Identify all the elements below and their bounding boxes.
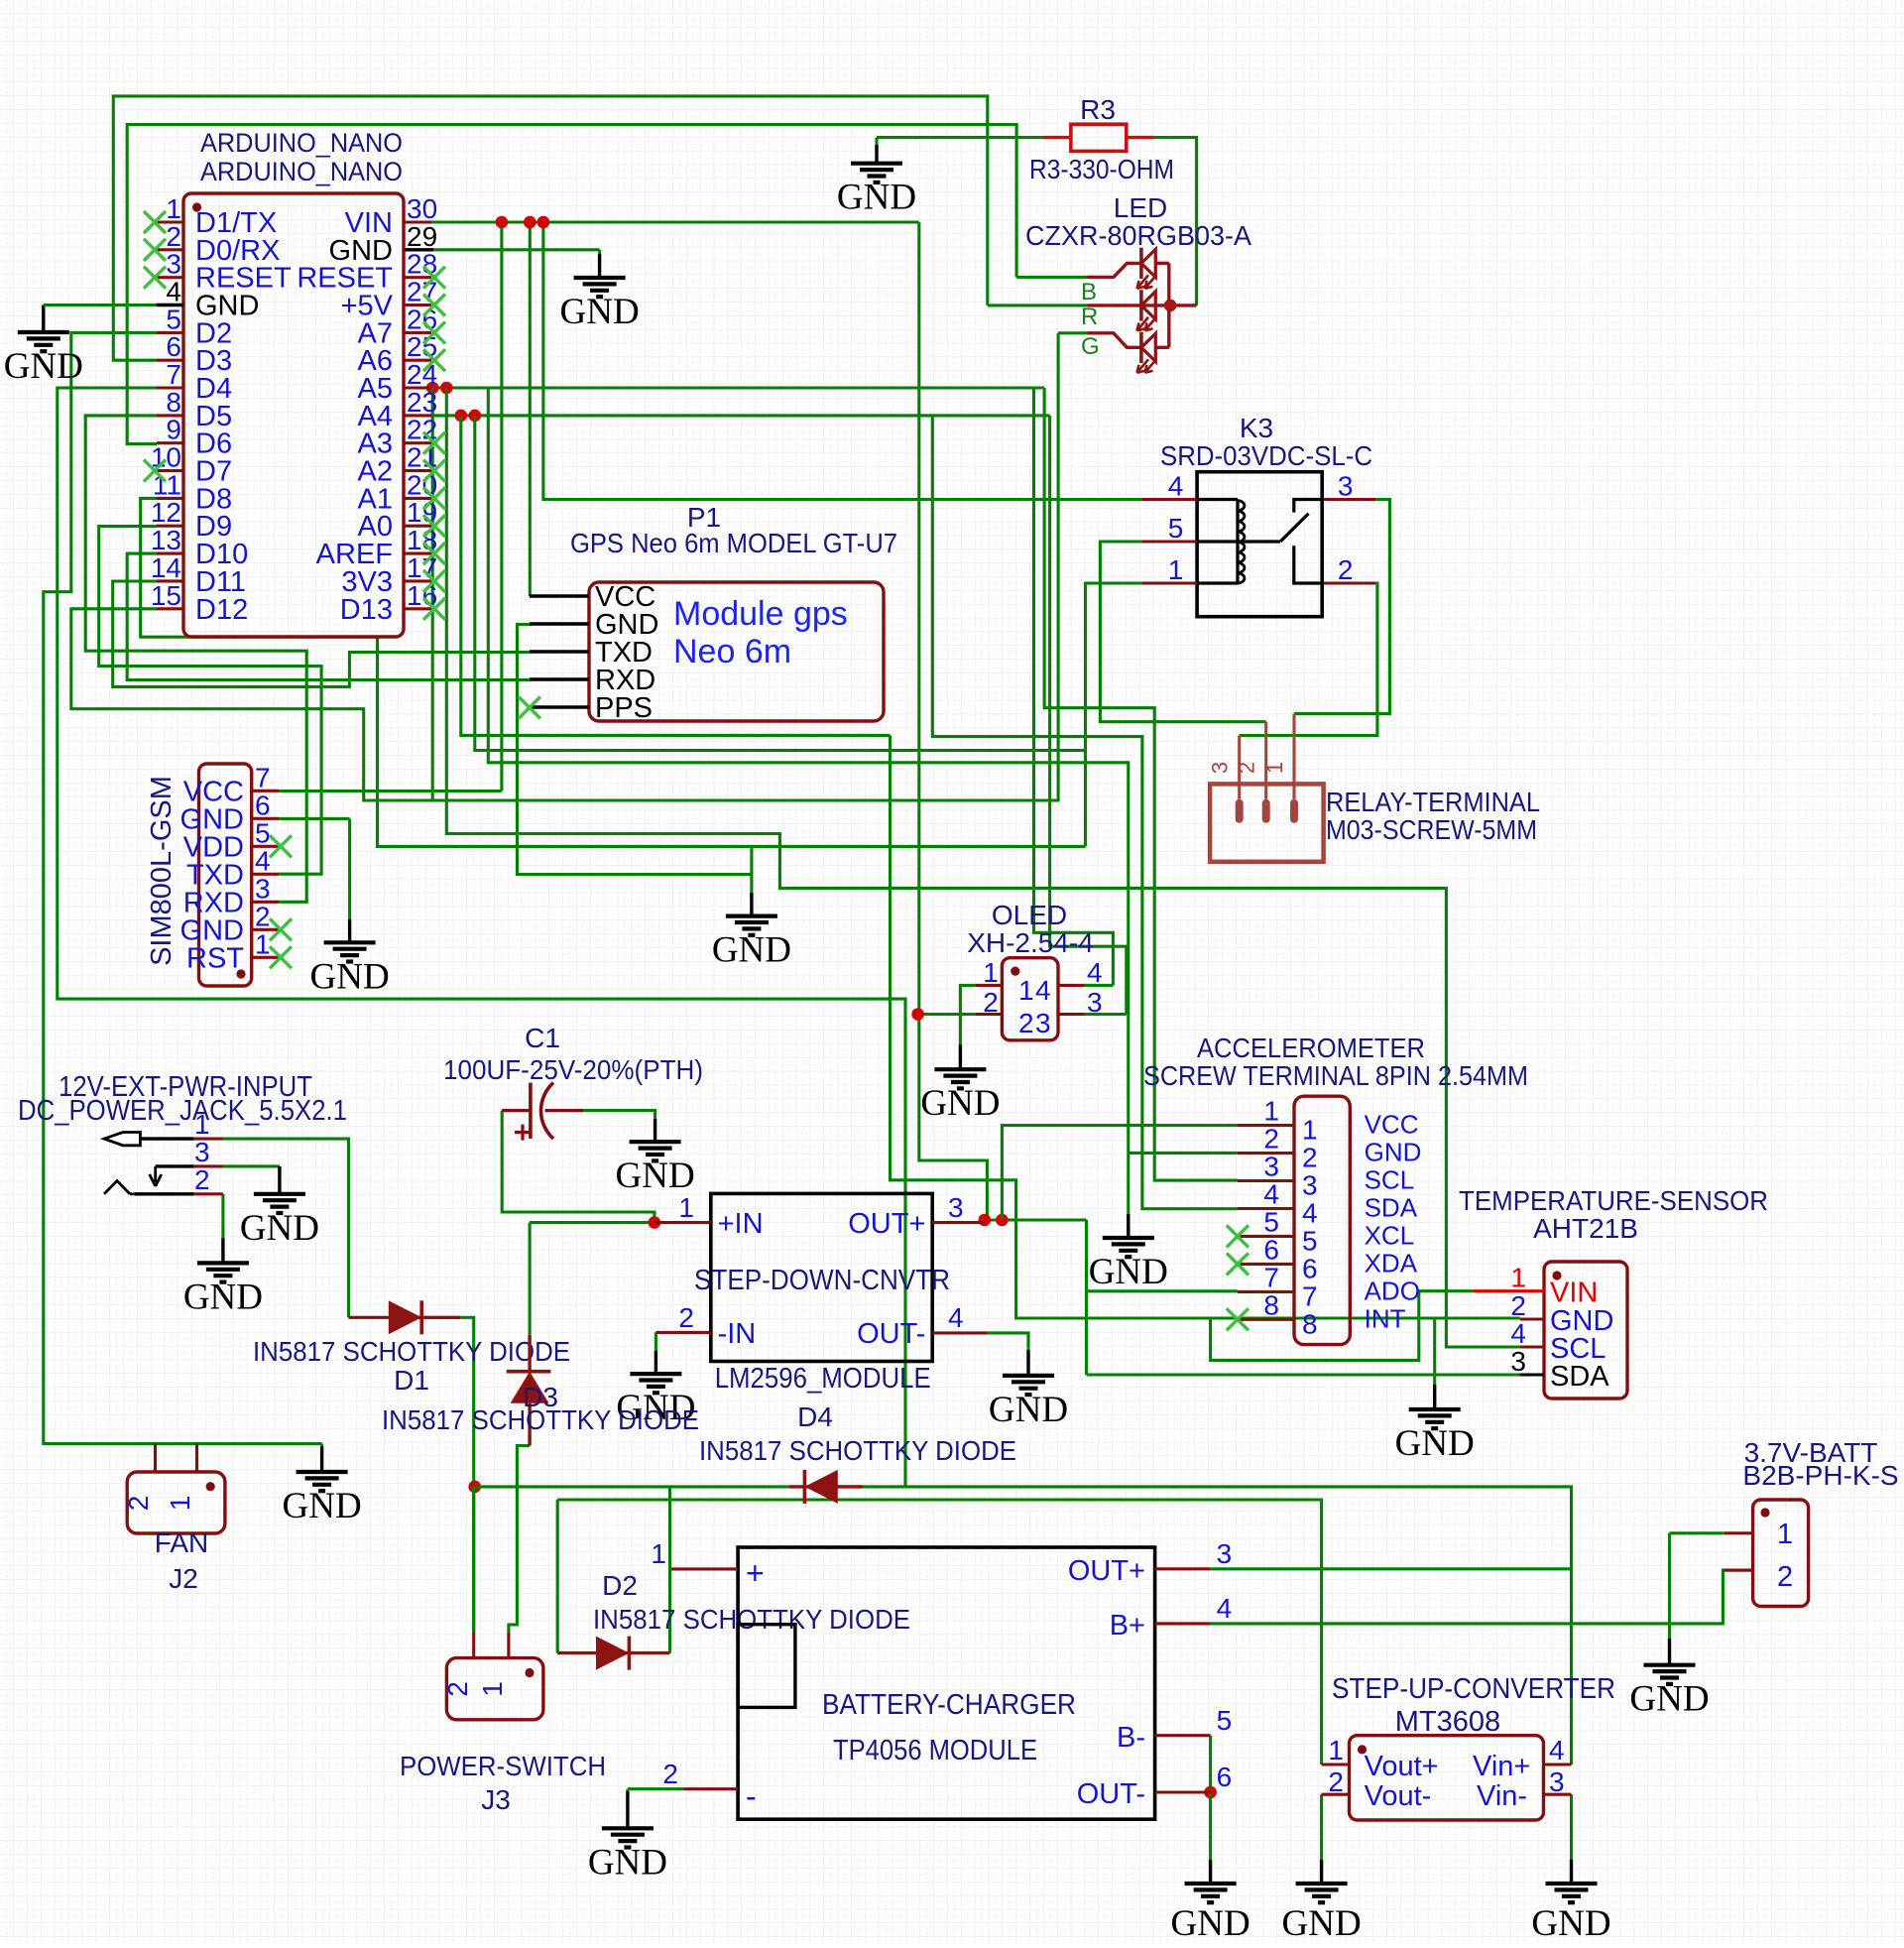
svg-text:3: 3	[194, 1137, 210, 1167]
svg-text:CZXR-80RGB03-A: CZXR-80RGB03-A	[1025, 220, 1251, 251]
svg-text:FAN: FAN	[155, 1527, 208, 1558]
svg-text:LED: LED	[1114, 192, 1167, 223]
svg-text:-: -	[746, 1778, 757, 1814]
svg-text:8: 8	[1302, 1308, 1318, 1339]
svg-text:2: 2	[123, 1496, 154, 1512]
svg-text:ARDUINO_NANO: ARDUINO_NANO	[200, 128, 403, 158]
svg-text:2: 2	[166, 221, 181, 252]
svg-text:2: 2	[1510, 1290, 1526, 1321]
svg-text:29: 29	[407, 221, 437, 252]
svg-text:3: 3	[1035, 1008, 1051, 1038]
svg-text:4: 4	[1510, 1318, 1526, 1349]
svg-text:GND: GND	[616, 1156, 695, 1196]
svg-text:2: 2	[678, 1302, 694, 1333]
svg-text:4: 4	[255, 845, 271, 876]
svg-text:MT3608: MT3608	[1395, 1706, 1500, 1738]
svg-text:OUT-: OUT-	[857, 1318, 925, 1350]
svg-text:1: 1	[1328, 1735, 1344, 1765]
svg-text:2: 2	[255, 901, 271, 931]
svg-text:-IN: -IN	[718, 1318, 757, 1350]
svg-text:OUT-: OUT-	[1077, 1778, 1145, 1810]
svg-text:GND: GND	[712, 930, 791, 971]
svg-text:4: 4	[1087, 957, 1103, 988]
svg-text:1: 1	[166, 193, 181, 224]
svg-text:8: 8	[1263, 1289, 1279, 1320]
svg-text:3: 3	[1510, 1346, 1526, 1377]
svg-text:6: 6	[1302, 1253, 1318, 1283]
svg-text:1: 1	[678, 1192, 694, 1223]
svg-text:D12: D12	[195, 594, 248, 626]
svg-text:K3: K3	[1240, 413, 1273, 443]
svg-text:9: 9	[166, 415, 181, 445]
svg-text:TEMPERATURE-SENSOR: TEMPERATURE-SENSOR	[1459, 1185, 1768, 1216]
svg-text:GND: GND	[1629, 1679, 1709, 1720]
svg-text:G: G	[1081, 333, 1100, 360]
svg-text:D1: D1	[394, 1365, 429, 1396]
svg-text:2: 2	[1263, 1124, 1279, 1155]
svg-text:TP4056 MODULE: TP4056 MODULE	[833, 1735, 1037, 1766]
svg-text:R3: R3	[1080, 94, 1116, 125]
svg-text:D13: D13	[340, 594, 393, 626]
svg-text:3: 3	[1302, 1170, 1318, 1201]
svg-text:GND: GND	[1395, 1423, 1475, 1464]
svg-text:1: 1	[165, 1496, 195, 1512]
svg-text:1: 1	[1168, 554, 1184, 585]
svg-text:B2B-PH-K-S: B2B-PH-K-S	[1742, 1460, 1898, 1491]
svg-text:INT: INT	[1365, 1303, 1406, 1333]
svg-text:3: 3	[1217, 1538, 1233, 1569]
svg-text:1: 1	[477, 1681, 508, 1697]
svg-text:GND: GND	[1365, 1138, 1422, 1167]
svg-text:100UF-25V-20%(PTH): 100UF-25V-20%(PTH)	[443, 1054, 703, 1085]
svg-text:GND: GND	[1531, 1903, 1610, 1943]
svg-text:B-: B-	[1117, 1722, 1145, 1754]
svg-text:B: B	[1081, 279, 1097, 305]
svg-text:12: 12	[151, 497, 181, 528]
svg-text:4: 4	[166, 277, 181, 307]
svg-text:23: 23	[407, 387, 437, 418]
svg-text:IN5817 SCHOTTKY DIODE: IN5817 SCHOTTKY DIODE	[593, 1604, 910, 1635]
svg-text:GPS Neo 6m MODEL GT-U7: GPS Neo 6m MODEL GT-U7	[570, 528, 897, 558]
svg-text:SDA: SDA	[1550, 1361, 1609, 1393]
svg-text:3: 3	[1087, 987, 1103, 1018]
svg-text:14: 14	[151, 552, 181, 583]
svg-text:3: 3	[948, 1192, 964, 1223]
svg-text:RST: RST	[186, 942, 244, 974]
svg-text:3: 3	[1338, 471, 1354, 502]
svg-text:15: 15	[151, 580, 181, 611]
svg-text:1: 1	[983, 957, 999, 988]
svg-text:SCL: SCL	[1365, 1165, 1415, 1195]
svg-text:POWER-SWITCH: POWER-SWITCH	[400, 1751, 606, 1781]
svg-text:BATTERY-CHARGER: BATTERY-CHARGER	[822, 1689, 1076, 1721]
svg-text:GND: GND	[1089, 1252, 1168, 1292]
svg-text:2: 2	[1777, 1561, 1793, 1593]
svg-text:IN5817 SCHOTTKY DIODE: IN5817 SCHOTTKY DIODE	[253, 1336, 570, 1367]
svg-text:5: 5	[1217, 1705, 1233, 1736]
svg-text:SCREW TERMINAL 8PIN 2.54MM: SCREW TERMINAL 8PIN 2.54MM	[1143, 1060, 1528, 1091]
svg-text:1: 1	[1263, 1096, 1279, 1127]
svg-text:3: 3	[1549, 1766, 1565, 1797]
svg-text:4: 4	[1302, 1198, 1318, 1229]
svg-text:2: 2	[1328, 1766, 1344, 1797]
svg-text:6: 6	[1263, 1234, 1279, 1265]
svg-text:3: 3	[1208, 762, 1233, 774]
svg-text:B+: B+	[1110, 1610, 1145, 1642]
svg-text:GND: GND	[1282, 1903, 1362, 1943]
svg-text:XH-2.54-4: XH-2.54-4	[967, 927, 1094, 958]
svg-text:+: +	[746, 1555, 765, 1591]
svg-text:1: 1	[1302, 1115, 1318, 1146]
svg-text:4: 4	[1549, 1735, 1565, 1765]
svg-text:D2: D2	[602, 1570, 638, 1601]
svg-text:Vout+: Vout+	[1365, 1751, 1439, 1782]
svg-text:5: 5	[1302, 1225, 1318, 1256]
svg-text:GND: GND	[837, 178, 916, 218]
svg-text:STEP-DOWN-CNVTR: STEP-DOWN-CNVTR	[694, 1265, 950, 1296]
svg-text:1: 1	[194, 1109, 210, 1140]
svg-text:GND: GND	[240, 1208, 319, 1249]
svg-text:ACCELEROMETER: ACCELEROMETER	[1197, 1033, 1425, 1063]
svg-text:2: 2	[194, 1164, 210, 1195]
svg-text:GND: GND	[920, 1083, 1000, 1124]
svg-text:Vin+: Vin+	[1473, 1751, 1530, 1782]
svg-text:3: 3	[1263, 1152, 1279, 1182]
svg-text:STEP-UP-CONVERTER: STEP-UP-CONVERTER	[1332, 1673, 1615, 1705]
svg-text:6: 6	[1217, 1762, 1233, 1792]
svg-text:VIN: VIN	[1550, 1278, 1598, 1309]
svg-text:4: 4	[1217, 1593, 1233, 1624]
svg-text:SDA: SDA	[1365, 1193, 1418, 1223]
svg-text:7: 7	[255, 762, 271, 792]
svg-text:5: 5	[1168, 513, 1184, 544]
svg-text:5: 5	[255, 817, 271, 848]
svg-text:2: 2	[662, 1759, 678, 1789]
svg-text:XDA: XDA	[1365, 1248, 1418, 1278]
svg-text:5: 5	[1263, 1206, 1279, 1237]
svg-text:OLED: OLED	[992, 900, 1067, 930]
svg-text:6: 6	[166, 331, 181, 362]
svg-text:GND: GND	[560, 292, 640, 332]
svg-text:7: 7	[1302, 1280, 1318, 1311]
svg-text:1: 1	[1777, 1519, 1793, 1550]
svg-text:1: 1	[255, 928, 271, 959]
svg-text:IN5817 SCHOTTKY DIODE: IN5817 SCHOTTKY DIODE	[382, 1404, 699, 1435]
svg-text:Vout-: Vout-	[1365, 1780, 1432, 1812]
svg-text:GND: GND	[989, 1390, 1068, 1430]
svg-text:2: 2	[1018, 1008, 1034, 1038]
svg-text:Module gps: Module gps	[673, 595, 848, 633]
svg-text:8: 8	[166, 387, 181, 418]
svg-text:6: 6	[255, 790, 271, 820]
svg-text:C1: C1	[525, 1023, 560, 1053]
svg-text:DC_POWER_JACK_5.5X2.1: DC_POWER_JACK_5.5X2.1	[18, 1095, 347, 1127]
svg-text:1: 1	[1018, 975, 1034, 1006]
svg-text:1: 1	[651, 1538, 666, 1569]
svg-text:Vin-: Vin-	[1477, 1780, 1527, 1812]
svg-text:M03-SCREW-5MM: M03-SCREW-5MM	[1326, 814, 1537, 845]
svg-text:J2: J2	[169, 1563, 198, 1594]
svg-text:4: 4	[1035, 975, 1051, 1006]
svg-text:R3-330-OHM: R3-330-OHM	[1029, 154, 1174, 184]
svg-text:VCC: VCC	[1365, 1110, 1419, 1140]
svg-text:GND: GND	[183, 1277, 263, 1317]
svg-text:2: 2	[1338, 554, 1354, 585]
svg-text:30: 30	[407, 193, 437, 224]
svg-text:Neo 6m: Neo 6m	[673, 633, 791, 670]
svg-text:R: R	[1081, 304, 1098, 330]
svg-text:J3: J3	[481, 1784, 511, 1815]
svg-text:SRD-03VDC-SL-C: SRD-03VDC-SL-C	[1160, 440, 1372, 471]
svg-text:4: 4	[948, 1302, 964, 1333]
svg-text:D4: D4	[797, 1401, 833, 1432]
svg-text:3: 3	[255, 873, 271, 904]
svg-text:ADO: ADO	[1365, 1276, 1420, 1305]
svg-text:5: 5	[166, 304, 181, 334]
svg-text:GND: GND	[4, 346, 83, 387]
svg-text:OUT+: OUT+	[1068, 1555, 1145, 1587]
svg-text:ARDUINO_NANO: ARDUINO_NANO	[200, 157, 403, 186]
svg-text:+IN: +IN	[718, 1208, 764, 1240]
svg-text:IN5817 SCHOTTKY DIODE: IN5817 SCHOTTKY DIODE	[699, 1435, 1016, 1466]
svg-text:GND: GND	[283, 1486, 362, 1526]
svg-text:GND: GND	[1171, 1903, 1250, 1943]
svg-text:3: 3	[166, 249, 181, 280]
svg-text:RELAY-TERMINAL: RELAY-TERMINAL	[1326, 787, 1540, 817]
svg-text:SIM800L-GSM: SIM800L-GSM	[146, 776, 178, 966]
svg-text:PPS: PPS	[595, 692, 653, 724]
svg-text:1: 1	[1510, 1263, 1526, 1293]
svg-text:4: 4	[1168, 471, 1184, 502]
svg-text:13: 13	[151, 525, 181, 555]
svg-text:GND: GND	[310, 956, 390, 997]
svg-text:2: 2	[1302, 1143, 1318, 1173]
svg-text:AHT21B: AHT21B	[1533, 1213, 1638, 1244]
svg-text:XCL: XCL	[1365, 1220, 1415, 1250]
svg-text:LM2596_MODULE: LM2596_MODULE	[715, 1363, 931, 1395]
svg-text:2: 2	[442, 1681, 473, 1697]
svg-text:2: 2	[983, 987, 999, 1018]
svg-text:7: 7	[166, 359, 181, 390]
svg-text:GND: GND	[588, 1842, 667, 1883]
svg-text:OUT+: OUT+	[848, 1208, 925, 1240]
svg-text:7: 7	[1263, 1262, 1279, 1292]
svg-text:4: 4	[1263, 1179, 1279, 1210]
